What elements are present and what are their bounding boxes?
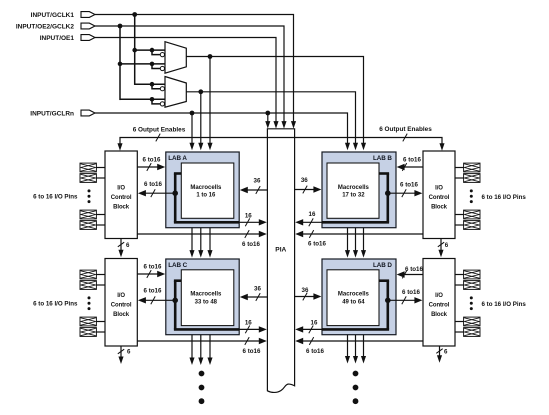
wire 6 OE bottom-right I/O continuation bbox=[439, 346, 441, 357]
svg-text:6 to16: 6 to16 bbox=[144, 287, 162, 294]
wire GCLK1 horizontal+drop to PIA bbox=[95, 15, 294, 123]
I/O pin cell bottom-right 3 with wire stub bbox=[455, 321, 464, 323]
wire 6 OE bottom-left I/O continuation bbox=[120, 346, 122, 358]
junction GCLRn to PIA bbox=[265, 111, 270, 116]
wire 36 PIA to LAB D bbox=[295, 296, 315, 298]
svg-text:INPUT/OE2/GCLK2: INPUT/OE2/GCLK2 bbox=[16, 23, 75, 30]
junction LAB D feedback node bbox=[385, 298, 391, 304]
wire 6to16 I/O top-right to PIA bbox=[302, 233, 423, 235]
wires control LAB D continuation down bbox=[347, 335, 349, 358]
svg-text:LAB B: LAB B bbox=[373, 155, 392, 162]
continuation dots below LAB D bbox=[353, 371, 359, 377]
LAB D macrocell array shadow outline bbox=[386, 281, 389, 330]
continuation dots below LAB C bbox=[199, 371, 205, 377]
LAB B outer box bbox=[322, 152, 396, 228]
mux M2 input 1 (true) with complement bubble branch bbox=[135, 83, 165, 85]
wire 6to16 LAB D to I/O block right bbox=[388, 299, 416, 301]
I/O Control Block top-left bbox=[105, 151, 137, 239]
I/O pin cell bottom-left 3 with wire stub bbox=[96, 321, 105, 323]
junction GCLK2 to mux bus B bbox=[118, 24, 123, 29]
mux M1 input 2 (true) with complement bubble branch bbox=[120, 63, 165, 65]
svg-text:17 to 32: 17 to 32 bbox=[342, 193, 365, 199]
wire 36 PIA to LAB A bbox=[247, 189, 268, 191]
ellipsis dots top-right pins bbox=[470, 189, 473, 192]
input buffer OE2/GCLK2 bbox=[81, 23, 95, 29]
svg-text:6 to16: 6 to16 bbox=[403, 156, 421, 163]
LAB A macrocells box bbox=[181, 163, 234, 218]
I/O pin cell bottom-left 4 with wire stub bbox=[96, 331, 105, 333]
junction GCLRn to LAB A bbox=[190, 111, 195, 116]
wire 6to16 LAB C to I/O block left bbox=[145, 299, 175, 301]
svg-text:LAB C: LAB C bbox=[168, 262, 187, 269]
input buffer OE1 bbox=[81, 35, 95, 41]
svg-text:Block: Block bbox=[113, 312, 130, 318]
svg-text:36: 36 bbox=[301, 177, 308, 184]
svg-text:6: 6 bbox=[126, 242, 130, 249]
PIA block bbox=[267, 129, 294, 393]
I/O pin cell top-left 2 with wire stub bbox=[96, 177, 105, 179]
mux M2 body bbox=[165, 77, 186, 108]
svg-text:Macrocells: Macrocells bbox=[338, 292, 370, 298]
svg-text:6 to 16 I/O Pins: 6 to 16 I/O Pins bbox=[482, 194, 527, 201]
svg-text:33 to 48: 33 to 48 bbox=[195, 300, 218, 306]
svg-text:INPUT/OE1: INPUT/OE1 bbox=[40, 35, 75, 42]
junction LAB B feedback node bbox=[385, 190, 391, 196]
svg-text:6 to16: 6 to16 bbox=[308, 240, 326, 247]
svg-text:6: 6 bbox=[127, 348, 131, 355]
junction LAB A feedback node bbox=[172, 190, 178, 196]
I/O pin cell bottom-left 1 with wire stub bbox=[96, 274, 105, 276]
svg-text:INPUT/GCLK1: INPUT/GCLK1 bbox=[31, 12, 75, 19]
svg-text:6 to16: 6 to16 bbox=[143, 156, 161, 163]
ellipsis dots bottom-left pins bbox=[88, 296, 91, 299]
svg-text:1 to 16: 1 to 16 bbox=[196, 193, 216, 199]
LAB C macrocells box bbox=[181, 270, 234, 326]
junction GCLK1 to mux bus A bbox=[132, 12, 137, 17]
wire 16 LAB B to PIA bbox=[302, 221, 322, 223]
svg-text:36: 36 bbox=[254, 177, 261, 184]
svg-text:6 to16: 6 to16 bbox=[243, 348, 261, 355]
svg-text:6 to16: 6 to16 bbox=[242, 241, 260, 248]
I/O Control Block top-right bbox=[423, 151, 455, 239]
I/O pin cell top-right 2 with wire stub bbox=[455, 177, 464, 179]
wire 16 LAB D to PIA bbox=[302, 328, 322, 330]
svg-text:6: 6 bbox=[445, 242, 449, 249]
wire 6to16 I/O bottom-left to PIA bbox=[137, 340, 259, 342]
svg-text:I/O: I/O bbox=[435, 185, 443, 191]
svg-text:16: 16 bbox=[245, 212, 252, 219]
wire bus A vertical from GCLK1 bbox=[134, 15, 136, 85]
wire 6to16 I/O top-left to PIA bbox=[137, 233, 259, 235]
svg-text:36: 36 bbox=[254, 285, 261, 292]
junction LAB C feedback node bbox=[172, 298, 178, 304]
wire 6 Output Enables bus bbox=[120, 138, 442, 145]
wire GCLRn arrow into PIA top bbox=[267, 113, 269, 122]
wire 6 OE top-right I/O to bottom-right I/O bbox=[440, 239, 442, 252]
I/O pin cell top-left 4 with wire stub bbox=[96, 224, 105, 226]
wire bus B vertical from GCLK2 bbox=[119, 26, 121, 100]
input buffer GCLRn bbox=[81, 110, 95, 116]
svg-text:16: 16 bbox=[311, 319, 318, 326]
svg-text:16: 16 bbox=[309, 211, 316, 218]
svg-text:49 to 64: 49 to 64 bbox=[342, 300, 365, 306]
svg-text:36: 36 bbox=[302, 287, 309, 294]
wires control LAB B to LAB D bbox=[347, 228, 349, 252]
I/O pin cell top-left 3 with wire stub bbox=[96, 214, 105, 216]
svg-text:Macrocells: Macrocells bbox=[190, 185, 222, 191]
svg-text:I/O: I/O bbox=[435, 293, 443, 299]
junction mux M2 output to LAB A bbox=[198, 89, 203, 94]
wires control LAB C continuation down bbox=[191, 335, 193, 359]
ellipsis dots bottom-right pins bbox=[470, 296, 473, 299]
svg-text:16: 16 bbox=[245, 319, 252, 326]
wire OE1 horizontal+drop to PIA bbox=[95, 38, 276, 123]
I/O pin cell bottom-right 4 with wire stub bbox=[455, 331, 464, 333]
svg-text:Macrocells: Macrocells bbox=[338, 185, 370, 191]
ellipsis dots top-left pins bbox=[88, 189, 91, 192]
svg-text:Control: Control bbox=[429, 303, 450, 309]
wire 6to16 I/O to LAB B bbox=[404, 166, 423, 168]
I/O pin cell top-right 3 with wire stub bbox=[455, 214, 464, 216]
I/O Control Block bottom-right bbox=[423, 259, 455, 347]
svg-text:Block: Block bbox=[431, 312, 448, 318]
junction mux M1 output to LAB A bbox=[208, 54, 213, 59]
svg-text:6 to 16 I/O Pins: 6 to 16 I/O Pins bbox=[33, 193, 78, 200]
svg-text:Block: Block bbox=[113, 205, 130, 211]
svg-text:6 to16: 6 to16 bbox=[306, 348, 324, 355]
svg-text:PIA: PIA bbox=[275, 247, 286, 254]
wire 6to16 I/O to LAB C bbox=[137, 273, 158, 275]
mux M1 body bbox=[165, 42, 186, 73]
svg-text:6 to16: 6 to16 bbox=[402, 289, 420, 296]
LAB D outer box bbox=[322, 259, 396, 335]
svg-text:I/O: I/O bbox=[117, 185, 125, 191]
LAB A macrocell array shadow outline bbox=[174, 174, 177, 223]
wire GCLRn drop into LAB A bbox=[191, 113, 193, 144]
LAB D macrocells box bbox=[327, 270, 379, 326]
svg-text:LAB A: LAB A bbox=[168, 155, 187, 162]
wire mux M1 output drop into LAB A bbox=[209, 57, 211, 144]
wire 16 LAB C to PIA bbox=[239, 328, 260, 330]
input buffer GCLK1 bbox=[81, 12, 95, 18]
svg-text:6 Output Enables: 6 Output Enables bbox=[379, 126, 432, 133]
svg-text:6 Output Enables: 6 Output Enables bbox=[133, 127, 186, 134]
wire 6to16 I/O to LAB D bbox=[404, 274, 423, 276]
wires control LAB A to LAB C bbox=[191, 228, 193, 252]
wire 36 PIA to LAB B bbox=[295, 189, 315, 191]
wire GCLRn horizontal + drop into LAB B bbox=[95, 113, 348, 144]
I/O pin cell bottom-right 1 with wire stub bbox=[455, 274, 464, 276]
wire mux M2 output to LAB B drop bbox=[186, 92, 355, 144]
svg-text:INPUT/GCLRn: INPUT/GCLRn bbox=[30, 110, 74, 117]
I/O Control Block bottom-left bbox=[105, 259, 137, 347]
mux M2 input 2 (true) with complement bubble branch bbox=[120, 98, 165, 100]
svg-text:I/O: I/O bbox=[117, 293, 125, 299]
svg-text:6 to16: 6 to16 bbox=[144, 181, 162, 188]
LAB C macrocell array shadow outline bbox=[174, 281, 177, 330]
I/O pin cell top-left 1 with wire stub bbox=[96, 167, 105, 169]
svg-text:Macrocells: Macrocells bbox=[190, 292, 222, 298]
LAB A outer box bbox=[166, 152, 239, 228]
wire 6to16 I/O to LAB A bbox=[137, 166, 158, 168]
svg-text:Block: Block bbox=[431, 205, 448, 211]
wire mux M2 output drop into LAB A bbox=[200, 92, 202, 144]
wire 6to16 LAB A to I/O block left bbox=[145, 192, 175, 194]
svg-text:6 to16: 6 to16 bbox=[144, 263, 162, 270]
wire 36 PIA to LAB C bbox=[247, 296, 268, 298]
I/O pin cell bottom-left 2 with wire stub bbox=[96, 284, 105, 286]
I/O pin cell top-right 1 with wire stub bbox=[455, 167, 464, 169]
svg-text:Control: Control bbox=[111, 303, 132, 309]
LAB B macrocell array shadow outline bbox=[386, 174, 389, 223]
wire 6to16 LAB B to I/O block right bbox=[388, 192, 416, 194]
svg-text:6: 6 bbox=[444, 348, 448, 355]
wire GCLK2 horizontal+drop to PIA bbox=[95, 26, 284, 122]
svg-text:Control: Control bbox=[429, 195, 450, 201]
svg-text:LAB D: LAB D bbox=[373, 262, 392, 269]
wire 16 LAB A to PIA bbox=[239, 221, 260, 223]
svg-text:6 to16: 6 to16 bbox=[400, 181, 418, 188]
svg-text:6 to 16 I/O Pins: 6 to 16 I/O Pins bbox=[33, 300, 78, 307]
LAB B macrocells box bbox=[327, 163, 379, 218]
wire 6to16 I/O bottom-right to PIA bbox=[302, 340, 423, 342]
LAB C outer box bbox=[166, 259, 239, 335]
svg-text:Control: Control bbox=[111, 195, 132, 201]
svg-text:6 to 16 I/O Pins: 6 to 16 I/O Pins bbox=[482, 301, 527, 308]
mux M1 input 1 (true) with complement bubble branch bbox=[135, 49, 165, 51]
I/O pin cell top-right 4 with wire stub bbox=[455, 224, 464, 226]
wire 6 OE top-left I/O to bottom-left I/O bbox=[120, 239, 122, 252]
I/O pin cell bottom-right 2 with wire stub bbox=[455, 284, 464, 286]
svg-text:6 to16: 6 to16 bbox=[405, 266, 423, 273]
wire mux M1 output to LAB B drop bbox=[186, 57, 363, 144]
